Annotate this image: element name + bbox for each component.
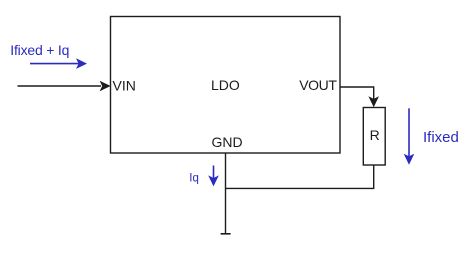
svg-text:Iq: Iq	[189, 173, 199, 185]
wire: GND pin down to ground	[225, 153, 227, 234]
svg-text:VOUT: VOUT	[299, 77, 337, 93]
wire: resistor bottom to ground rail	[226, 165, 374, 188]
current arrow Ifixed + Iq (blue, right)	[30, 63, 79, 65]
svg-text:VIN: VIN	[113, 78, 136, 94]
current arrow Iq (blue, down)	[213, 166, 215, 179]
wire: VOUT to resistor top	[340, 87, 374, 99]
resistor R	[363, 108, 385, 166]
svg-text:R: R	[370, 127, 380, 143]
ground	[221, 233, 231, 235]
current arrow Ifixed (blue, down)	[408, 108, 410, 156]
arrowhead into VIN	[100, 81, 111, 92]
wire: input line into VIN	[18, 85, 102, 87]
svg-text:GND: GND	[212, 134, 243, 150]
LDO block U1	[111, 17, 341, 154]
arrowhead into resistor R	[368, 96, 379, 107]
svg-text:Ifixed + Iq: Ifixed + Iq	[10, 42, 69, 58]
svg-text:LDO: LDO	[211, 77, 240, 93]
svg-text:Ifixed: Ifixed	[423, 129, 459, 146]
